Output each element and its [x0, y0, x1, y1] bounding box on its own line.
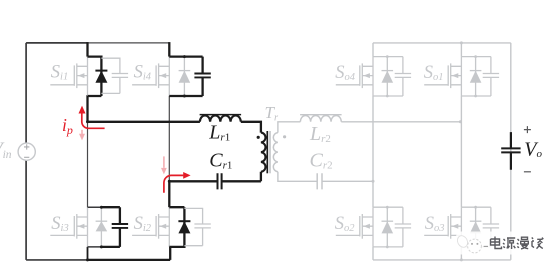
wire: leg2 bottom stub (bold) — [169, 247, 171, 260]
junction dots output bridge — [372, 41, 463, 261]
switch cell S_o3 — [424, 206, 499, 249]
wire: Si3 cell rails — [88, 207, 102, 247]
body diode D_i2 (conducting, black) — [183, 207, 185, 248]
junction dots input bridge — [86, 120, 171, 261]
wire: legB vertical mid segment — [460, 96, 462, 207]
junction dots So1 — [474, 55, 477, 58]
switch cell S_i1 — [50, 56, 128, 97]
body diode D_o1 — [475, 57, 477, 96]
wire: input bridge top rail — [26, 42, 87, 44]
watermark icon blob — [455, 234, 469, 249]
wire: legB top stub — [460, 43, 462, 57]
wire: input bottom rail active segment (bold) — [87, 259, 171, 261]
junction dots Si4 diode branch — [183, 55, 186, 58]
mosfet Q_i2 — [132, 207, 169, 247]
primary winding (black) — [261, 133, 266, 172]
mosfet Q_o3 — [450, 214, 452, 239]
body diode D_i3 (gray) — [100, 207, 102, 247]
snubber capacitor of S_i1 (gray) — [101, 58, 128, 93]
wire: output bridge top rail — [373, 42, 511, 44]
wire: leg2 vertical mid segment — [168, 96, 170, 181]
mosfet Q_i4 — [132, 57, 169, 96]
watermark icon face circle — [468, 239, 482, 253]
wire: primary tank bottom wire with Cr1 (bold) — [168, 172, 261, 182]
wire: Si3 bottom stub — [87, 247, 89, 260]
snubber capacitor of S_i2 (gray) — [184, 208, 210, 245]
wire: secondary tank top wire with Lr2 — [278, 122, 461, 133]
switch cell S_i2 — [132, 207, 211, 248]
body diode D_o2 — [386, 207, 388, 247]
switch cell S_i3 — [50, 206, 128, 249]
junction dots So3 — [474, 206, 477, 209]
wire: Si1 cell rails (bold) — [88, 57, 102, 96]
snubber capacitor of S_o1 — [490, 57, 492, 96]
switch cell S_i4 — [132, 55, 211, 97]
transformer T_r — [257, 131, 287, 173]
snubber capacitor of S_o2 — [402, 207, 404, 247]
wire: input bridge bottom rail — [26, 259, 87, 261]
body diode D_o3 — [475, 207, 477, 247]
capacitor C_r1 (resonant, bold) — [218, 173, 222, 189]
wire: Si4 cell rails (bold, cap path active) — [169, 57, 202, 96]
glyph 谈 — [532, 238, 544, 249]
mosfet Q_o2 — [361, 214, 363, 239]
wire: secondary tank bottom wire with Cr2 — [278, 172, 373, 182]
inductor L_r1 (resonant, bold) — [200, 115, 242, 122]
glyph 源 — [503, 238, 515, 249]
wire: output right column — [510, 43, 512, 260]
plus sign at output — [524, 126, 531, 133]
wire: leg1 vertical mid segment — [87, 96, 89, 207]
wire: legB bottom stub — [460, 247, 462, 260]
voltage source V_in — [18, 143, 35, 160]
snubber capacitor of S_o4 — [402, 57, 404, 96]
faded reverse tail of C_r1 arrow — [163, 156, 165, 167]
wire: legA top stub — [372, 43, 374, 57]
wire: So2 cell rails — [373, 207, 403, 247]
switch cell S_o2 — [336, 206, 411, 249]
wire: input left column (Vin branch) — [25, 43, 27, 260]
junction dots So2 — [386, 206, 389, 209]
wire: output bridge bottom rail — [373, 259, 511, 261]
secondary winding (gray) — [273, 133, 278, 172]
junction dots Si3 diode branch — [100, 206, 103, 209]
mosfet Q_i3 — [50, 207, 87, 247]
current arrow i_p (solid red, pointing up with hook) — [79, 106, 105, 141]
wire: So3 cell rails — [461, 207, 491, 247]
core line secondary side — [269, 131, 271, 173]
wire: So1 cell rails — [461, 57, 491, 96]
mosfet Q_i1 — [50, 57, 87, 96]
snubber capacitor of S_i4 (black, charging) — [201, 57, 203, 96]
wire: leg2 top stub (bold) — [168, 42, 170, 57]
wire: So4 cell rails — [373, 57, 403, 96]
capacitor C_r2 (gray) — [317, 173, 322, 189]
wire: leg1 bold segment cell to tank tap — [86, 95, 88, 122]
body diode D_o4 — [386, 57, 388, 96]
switch cell S_o1 — [424, 55, 499, 97]
snubber capacitor of S_i3 (black, charging) — [119, 207, 121, 247]
snubber capacitor of S_o3 — [490, 207, 492, 247]
body diode D_i4 (gray) — [183, 57, 185, 96]
wire: legA vertical mid segment — [372, 96, 374, 207]
watermark 电源漫谈 logo — [455, 232, 557, 255]
wire: leg2 bold segment junction to Si2 — [168, 181, 170, 207]
wire: leg1 top stub (bold) — [86, 42, 88, 57]
body diode D_i1 (conducting, black) — [100, 56, 102, 97]
output capacitor C_o / V_o — [501, 132, 520, 170]
inductor L_r2 (gray) — [300, 115, 342, 122]
glyph 漫 — [517, 237, 528, 249]
switch cell S_o4 — [336, 55, 411, 97]
mosfet Q_o4 — [361, 63, 363, 88]
polarity dot secondary — [283, 135, 286, 138]
glyph 电 — [491, 237, 502, 249]
minus sign at output — [524, 171, 531, 173]
polarity dot primary — [257, 136, 260, 139]
faded reverse arrowhead of i_p — [81, 130, 83, 134]
junction dots So4 — [386, 55, 389, 58]
watermark text 电源漫谈 (drawn strokes) — [491, 237, 544, 250]
wire: legA bottom stub — [372, 247, 374, 260]
core line primary side — [266, 131, 268, 173]
current arrow at C_r1 (solid red, pointing right with hook) — [161, 156, 191, 192]
wire: Si2 cell rails (bold) — [169, 207, 184, 247]
mosfet Q_o1 — [450, 63, 452, 88]
wire: primary tank top wire with Lr1 (bold) — [87, 122, 261, 133]
